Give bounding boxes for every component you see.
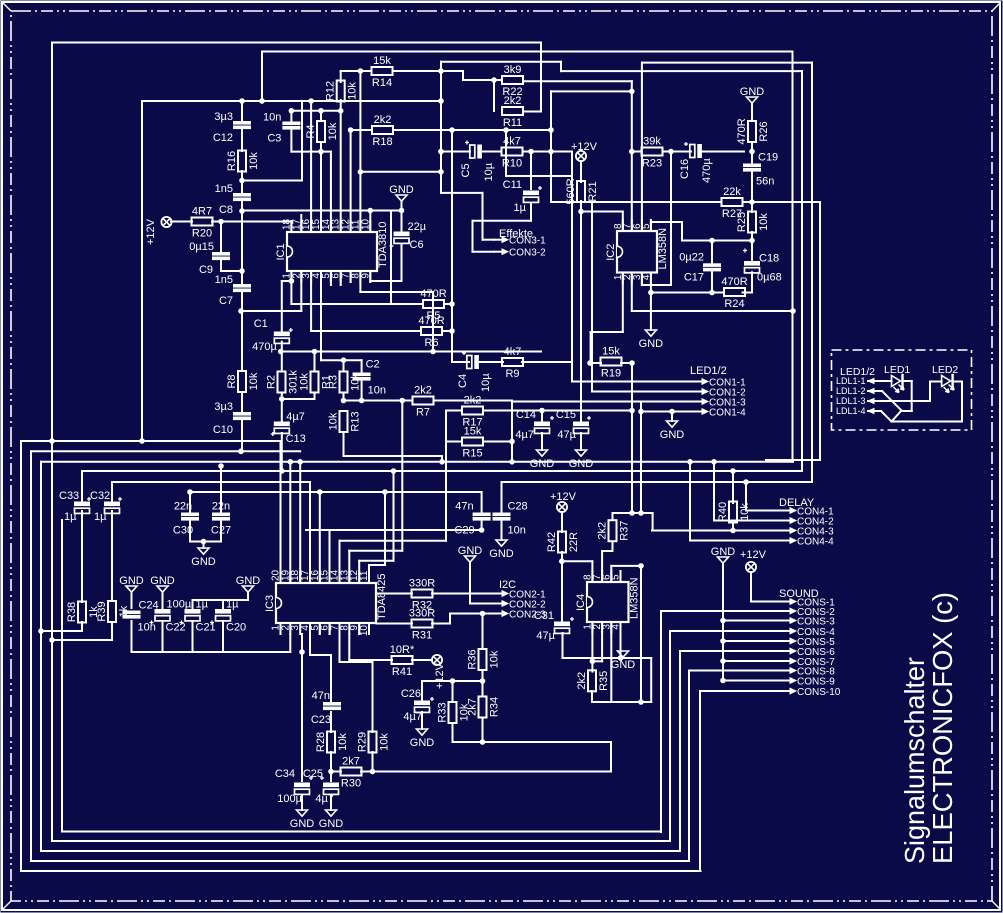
svg-text:22n: 22n [212, 501, 230, 513]
svg-text:IC4: IC4 [575, 594, 587, 611]
wire CONS-3 line [723, 620, 783, 622]
node pin18 tap [298, 460, 303, 465]
svg-text:10n: 10n [508, 525, 526, 537]
wire C16 right [702, 151, 744, 153]
wire C33 to R38 [81, 511, 83, 602]
op-amp IC3 TDA8425 [264, 569, 388, 636]
svg-text:1n5: 1n5 [215, 183, 233, 195]
wire stub y=460 right [766, 459, 820, 461]
svg-text:100µ: 100µ [277, 793, 302, 805]
wire R24 line [651, 292, 722, 294]
svg-text:C12: C12 [213, 132, 233, 144]
ground GND near IC1 [389, 184, 414, 201]
node R27 right [750, 200, 755, 205]
wire IC3 pin2 lead [289, 634, 291, 652]
resistor R18 [372, 114, 393, 148]
resistor R33 [437, 702, 471, 723]
node x452 y304 [450, 302, 455, 307]
connector CONS-7 [782, 657, 835, 668]
svg-text:GND: GND [458, 545, 483, 557]
wire pin16 lead [310, 101, 312, 232]
svg-text:GND: GND [489, 548, 514, 560]
connector CON4-2 [782, 516, 834, 527]
capacitor C18 [743, 249, 782, 284]
ground GND sound bus [711, 546, 736, 563]
svg-text:CONS-9: CONS-9 [797, 676, 835, 687]
svg-text:R13: R13 [350, 411, 362, 431]
resistor R34 [467, 697, 501, 718]
capacitor C23 [311, 690, 341, 726]
wire bus y=110 [291, 110, 340, 112]
wire C30 bottom [190, 521, 221, 542]
wire C6 top lead [401, 211, 403, 232]
wire CON1-4 line [641, 411, 700, 413]
svg-text:10k: 10k [379, 733, 391, 751]
svg-text:2k7: 2k7 [467, 698, 479, 716]
svg-text:4: 4 [611, 624, 622, 630]
wire IC4 pin1 to R35 [592, 622, 602, 672]
svg-text:10n: 10n [138, 622, 156, 634]
wire vert x=700 [700, 691, 783, 871]
svg-text:22R: 22R [568, 532, 580, 552]
wire C9 branch [221, 222, 242, 272]
svg-text:4: 4 [641, 274, 652, 280]
svg-text:C3: C3 [267, 133, 281, 145]
svg-text:C10: C10 [213, 424, 233, 436]
svg-text:C11: C11 [503, 179, 522, 191]
svg-text:C27: C27 [211, 525, 231, 537]
node pin7 jog [630, 89, 635, 94]
svg-text:330R: 330R [409, 578, 435, 590]
connector CONS-6 [782, 647, 835, 658]
wire bus y=61 A [441, 62, 802, 71]
wire IC3 pin18 vert [299, 462, 301, 583]
wire R37 top [613, 513, 653, 531]
svg-text:R41: R41 [392, 666, 412, 678]
capacitor C3 [263, 112, 300, 145]
svg-text:C1: C1 [254, 318, 268, 330]
node pin10 tap [368, 208, 373, 213]
wire R17/R15 left [446, 411, 461, 442]
connector CONS-5 [782, 637, 835, 648]
wire corner diagonal [892, 411, 901, 421]
node C14 top [540, 408, 545, 413]
wire R27 line [592, 201, 752, 203]
svg-text:R31: R31 [412, 630, 432, 642]
wire C2 top lead [361, 360, 363, 373]
svg-text:10k: 10k [739, 503, 751, 521]
wire pin5 stub [330, 271, 332, 285]
node pin1 jog [289, 279, 294, 284]
svg-text:C17: C17 [684, 271, 704, 283]
wire C6 bottom lead [401, 245, 403, 281]
node pin12 tap [391, 469, 396, 474]
node R19 left [588, 361, 593, 366]
node x52 y441 [50, 439, 55, 444]
node R4 bottom [319, 149, 324, 154]
node R5R6 junction [450, 329, 455, 334]
capacitor C27 [211, 501, 231, 537]
wire C13 bottom [281, 433, 283, 471]
wire pin17 lead [300, 215, 302, 232]
svg-text:0µ15: 0µ15 [189, 241, 214, 253]
svg-text:10k: 10k [758, 213, 770, 231]
node R2 bottom [280, 397, 285, 402]
node CON4-4 tap [688, 460, 693, 465]
resistor R11 [502, 95, 523, 129]
svg-text:330R: 330R [409, 608, 435, 620]
svg-text:LED1: LED1 [884, 364, 910, 376]
svg-text:C34: C34 [275, 768, 295, 780]
node x441 y171 [439, 170, 444, 175]
svg-text:GND: GND [290, 818, 315, 830]
node R16 bottom [240, 178, 245, 183]
wire C11 leads [530, 152, 532, 221]
wire GND4 lead [671, 412, 673, 422]
resistor R22 [502, 64, 523, 98]
node R19 right [630, 361, 635, 366]
node pin13 top [338, 109, 343, 114]
node C17 bottom [710, 290, 715, 295]
svg-text:R38: R38 [66, 602, 78, 622]
wire rect-A left x=52 [52, 43, 670, 842]
svg-text:3µ3: 3µ3 [214, 401, 233, 413]
ground GND above C24 [119, 575, 144, 592]
wire C17 bottom lead [711, 271, 713, 293]
wire R33 top lead [452, 681, 454, 702]
resistor R26 [736, 118, 770, 144]
svg-text:GND: GND [711, 546, 736, 558]
svg-text:C2: C2 [366, 359, 380, 371]
wire C19 to R27 [751, 171, 753, 212]
capacitor C7 [215, 274, 251, 307]
wire R32 left [377, 593, 413, 595]
svg-text:R36: R36 [467, 649, 479, 669]
ground GND under CON1-4 [660, 421, 685, 441]
svg-text:10k: 10k [489, 650, 501, 668]
node R13 tap [440, 460, 445, 465]
svg-text:10k: 10k [337, 733, 349, 751]
svg-text:GND: GND [530, 458, 555, 470]
connector CONS-1 [782, 597, 835, 608]
svg-text:C26: C26 [401, 688, 421, 700]
wire R10 out [523, 151, 572, 153]
svg-text:10µ: 10µ [480, 373, 492, 392]
wire IC3 pin20 vert [280, 441, 282, 583]
capacitor C24 [123, 600, 159, 634]
wire left L2 x=31 [31, 451, 689, 861]
svg-text:GND: GND [119, 575, 144, 587]
wire pin9 to C6 [370, 271, 401, 281]
svg-text:R23: R23 [642, 158, 662, 170]
capacitor C22 [150, 599, 192, 634]
wire vert x=551 [551, 91, 592, 202]
connector CON3-1 [494, 236, 546, 247]
wire CONS-7 line [723, 660, 783, 662]
svg-text:C7: C7 [219, 295, 233, 307]
svg-text:1n5: 1n5 [215, 274, 233, 286]
wire IC3 pin8 to R41 [349, 634, 392, 660]
svg-text:GND: GND [236, 575, 261, 587]
node C7 junction [240, 269, 245, 274]
svg-text:TDA8425: TDA8425 [376, 574, 388, 620]
svg-text:10k: 10k [328, 412, 340, 430]
power +12V (left) [145, 217, 172, 245]
capacitor C1 [252, 318, 293, 353]
svg-text:R29: R29 [357, 732, 369, 752]
wire LED1 cathode path [901, 381, 912, 411]
capacitor C20 [210, 599, 246, 634]
svg-text:22µ: 22µ [408, 221, 427, 233]
ground GND under IC2 [639, 330, 664, 350]
wire bus y=742 [453, 741, 612, 743]
ground GND under C25 [319, 810, 344, 830]
svg-text:LDL1-3: LDL1-3 [836, 396, 866, 406]
svg-text:C20: C20 [226, 622, 246, 634]
svg-text:R34: R34 [489, 697, 501, 717]
ground GND under C15 [569, 450, 594, 470]
svg-text:10: 10 [360, 218, 371, 230]
svg-text:LDL1-1: LDL1-1 [836, 376, 866, 386]
node C29 bottom [479, 528, 484, 533]
wire C3 top lead [290, 111, 292, 122]
wire bus y=482 left [112, 481, 310, 483]
svg-text:LDL1-2: LDL1-2 [836, 386, 866, 396]
node R42 bottom [560, 559, 565, 564]
connector CON1-3 [694, 397, 746, 408]
wire pin7 stub [350, 271, 352, 282]
wire R13 bottom [344, 433, 443, 462]
wire R41 to +12V [412, 659, 432, 661]
node C10 bottom tap [239, 449, 244, 454]
wire CON4-2 line [714, 462, 783, 521]
node R38 tap [39, 629, 44, 634]
node C13 tap [280, 469, 285, 474]
resistor R2 [266, 370, 300, 394]
node R20/C9 junction [219, 219, 224, 224]
svg-text:GND: GND [150, 575, 175, 587]
node pin11 y171 [358, 170, 363, 175]
wire R9 out [522, 362, 572, 382]
connector CONS-9 [782, 676, 835, 687]
svg-text:4R7: 4R7 [192, 206, 212, 218]
capacitor C8 [215, 183, 251, 216]
diode LED1 [892, 375, 905, 393]
node C1 bottom [278, 349, 283, 354]
wire LDL1-4 diagonal [871, 382, 962, 422]
wire R23 left lead [632, 151, 641, 153]
resistor R13 [328, 411, 362, 432]
wire bus y=771 [331, 771, 611, 773]
wire IC2 pin2 lead [632, 273, 793, 312]
svg-text:R33: R33 [437, 702, 449, 722]
wire R5 line [291, 303, 423, 305]
svg-text:47n: 47n [455, 501, 473, 513]
wire x=391 drop [390, 211, 392, 305]
resistor R9 [502, 346, 523, 380]
svg-text:1µ: 1µ [514, 202, 527, 214]
svg-text:3µ3: 3µ3 [214, 111, 233, 123]
wire R36 top lead [482, 614, 484, 650]
node R19 left [588, 361, 593, 366]
node C11 top [529, 149, 534, 154]
svg-text:C30: C30 [173, 525, 193, 537]
wire IC1 box [142, 101, 441, 441]
resistor R7 [413, 385, 434, 419]
svg-text:GND: GND [319, 818, 344, 830]
resistor R38 [66, 602, 100, 623]
node R3 top [341, 358, 346, 363]
wire GND2 lead [751, 103, 753, 121]
node x262 y101 [260, 99, 265, 104]
svg-text:470R: 470R [420, 288, 446, 300]
node pin11 tap [383, 490, 388, 495]
op-amp IC2 LM358N [605, 220, 669, 284]
svg-text:LED2: LED2 [932, 364, 958, 376]
svg-text:4k7: 4k7 [504, 346, 522, 358]
svg-text:10k: 10k [327, 122, 339, 140]
stub LDL1-1 [868, 379, 876, 384]
svg-text:R10: R10 [502, 158, 522, 170]
wire C27 bottom [220, 521, 222, 542]
wire C15 leads [580, 433, 582, 450]
wire IC3 pin16 vert [319, 492, 321, 583]
svg-text:R24: R24 [724, 298, 744, 310]
resistor R25 [736, 212, 770, 233]
wire vert x=541 [540, 43, 542, 112]
wire C18 bottom [743, 272, 753, 292]
svg-text:IC1: IC1 [275, 243, 287, 260]
node R4 top [319, 109, 324, 114]
svg-text:R14: R14 [372, 77, 392, 89]
node x506 y130 [504, 128, 509, 133]
svg-text:10k: 10k [299, 373, 311, 391]
svg-text:560R: 560R [565, 178, 577, 204]
node C8 junction [240, 209, 245, 214]
wire C32 to R39 [111, 511, 113, 601]
node CON1-4 tap [639, 409, 644, 414]
wire GND5 lead [203, 542, 205, 549]
node C3 top [289, 109, 294, 114]
node C30 top [188, 490, 193, 495]
resistor R31 [409, 608, 435, 642]
svg-text:C21: C21 [196, 622, 216, 634]
svg-text:4µ7: 4µ7 [515, 429, 534, 441]
resistor R39 [96, 601, 130, 622]
svg-text:+12V: +12V [434, 662, 446, 689]
resistor R12 [325, 81, 359, 102]
wire CONS-1 line [751, 572, 783, 602]
node R39 tap [50, 638, 55, 643]
wire y=180 link [242, 101, 302, 181]
svg-text:CON2-3: CON2-3 [509, 609, 546, 620]
wire vert x=262 [261, 52, 263, 102]
svg-text:GND: GND [660, 429, 685, 441]
ground GND under C26 [410, 729, 435, 749]
wire IC3 pin5 stub [319, 623, 321, 634]
wire R26 to C19 [751, 142, 753, 164]
wire vert x=572 [571, 152, 573, 382]
node x441 y151 [439, 149, 444, 154]
wire CON1-2 line [592, 202, 700, 392]
svg-text:LED1/2: LED1/2 [690, 365, 727, 377]
resistor R36 [467, 649, 501, 670]
wire vert x=641 upper [640, 402, 642, 514]
node pin16 tap [318, 490, 323, 495]
capacitor C10 [213, 401, 251, 436]
wire CON4-3 line [652, 530, 783, 532]
resistor R23 [642, 136, 663, 170]
wire C30 top [189, 492, 191, 513]
node R25 bottom [750, 238, 755, 243]
svg-text:C22: C22 [166, 622, 186, 634]
wire R5 out [444, 303, 452, 305]
ground GND above CON2-2 [458, 545, 483, 562]
svg-text:R37: R37 [619, 521, 631, 541]
svg-text:R16: R16 [226, 151, 238, 171]
wire R35 bottom [592, 691, 651, 702]
wire C28 bottom lead [501, 521, 503, 540]
node R24 left [649, 290, 654, 295]
wire pin13 lead [340, 111, 342, 232]
op-amp IC1 TDA3810 [275, 218, 389, 282]
wire IC4 pin6 jog [611, 566, 641, 582]
node cons5 tap [721, 639, 726, 644]
node R1 top [312, 349, 317, 354]
node R40 tap [731, 469, 736, 474]
svg-text:CON4-4: CON4-4 [797, 536, 834, 547]
wire R21 bottom [581, 201, 623, 231]
svg-text:R30: R30 [341, 778, 361, 790]
wire pin4 to R3/C2 [321, 271, 362, 360]
wire +12V to R42 [561, 512, 563, 532]
wire LDL1-3 to LED2 [871, 382, 942, 402]
svg-text:47µ: 47µ [557, 429, 576, 441]
capacitor C26 [401, 688, 434, 723]
svg-text:C8: C8 [219, 204, 233, 216]
node x512 y461 [510, 460, 515, 465]
wire R27 to x820 [752, 201, 820, 203]
wire IC3 pin11 vert [369, 492, 385, 583]
wire R42 to pin8 [562, 561, 593, 582]
svg-text:15k: 15k [602, 346, 620, 358]
capacitor C30 [173, 501, 199, 537]
svg-text:56n: 56n [756, 176, 774, 188]
svg-text:CONS-3: CONS-3 [797, 616, 835, 627]
wire pin3 to R6 [311, 271, 421, 331]
wire C29 top [481, 492, 483, 513]
ground GND under C28 [489, 540, 514, 560]
capacitor C6 [390, 221, 427, 251]
node R23 left [630, 149, 635, 154]
node C19 top [750, 149, 755, 154]
node R22 x494 [492, 78, 497, 83]
node pin13 tap [400, 398, 405, 403]
svg-text:C15: C15 [556, 409, 576, 421]
node x452 y130 [450, 128, 455, 133]
capacitor C16 [679, 142, 713, 183]
wire pin6 stub [340, 271, 342, 285]
connector CON4-3 [782, 526, 834, 537]
node R29 bottom [370, 769, 375, 774]
svg-text:R9: R9 [505, 368, 519, 380]
wire pin14 lead [330, 152, 332, 232]
stub LDL1-2 [868, 389, 876, 394]
capacitor C33 [59, 490, 91, 523]
node R21 bottom [579, 209, 584, 214]
svg-text:R4: R4 [305, 124, 317, 138]
wire bus y=471 [82, 470, 802, 472]
